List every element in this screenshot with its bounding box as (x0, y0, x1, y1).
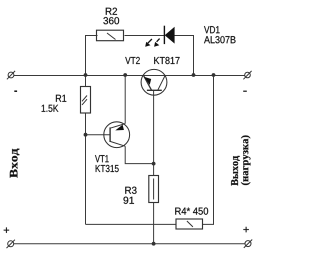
label R3 (125, 187, 136, 194)
terminal input bottom-left (7, 240, 15, 248)
junction node VT1 base on R1 line (84, 133, 88, 137)
junction node R3 on bottom rail (152, 242, 156, 246)
label R1 value 1.5K (42, 105, 59, 112)
LED VD1 (164, 26, 174, 44)
terminal input top-left (7, 71, 15, 79)
wire VT1 emitter to VT2 base node (125, 146, 153, 163)
label R1 (56, 95, 66, 102)
wire top rail (14, 75, 245, 77)
transistor VT1 emitter arrow (115, 125, 124, 131)
label R4 value R4* 450 (175, 207, 208, 214)
LED VD1 emission arrow 1 (145, 39, 152, 47)
junction node LED branch on output rail (192, 73, 196, 77)
wire R1 top lead (85, 75, 87, 87)
wire bottom run to R4 (86, 223, 177, 225)
junction node VT1 collector on input rail (123, 73, 127, 77)
wire VT1 collector riser (124, 75, 126, 124)
polarity minus top-right (243, 90, 247, 92)
label input Vhod (10, 149, 20, 178)
resistor R2 (97, 30, 124, 41)
wire R4 to output rail riser (203, 75, 214, 224)
wire R2 to VD1 (125, 35, 165, 37)
wire R1 bottom lead down to bottom run (85, 113, 87, 224)
resistor R3 (149, 176, 159, 203)
junction node R4 branch on output rail (212, 73, 216, 77)
wire bottom rail (14, 243, 245, 245)
terminal output bottom-right (244, 240, 252, 248)
junction node VT1 emitter / VT2 base (152, 162, 156, 166)
label output Vyhod (231, 156, 240, 186)
label R3 value 91 (123, 197, 134, 204)
wire VT2 base lead down to R3 (153, 90, 155, 175)
polarity plus bottom-left (4, 227, 9, 232)
resistor R4 (176, 219, 203, 229)
label R2 value 360 (103, 17, 119, 24)
label VT2 type KT817 (154, 57, 179, 64)
polarity plus bottom-right (243, 227, 248, 232)
label VT1 type KT315 (96, 165, 119, 172)
label output nagruzka (241, 135, 251, 185)
label VT2 (125, 57, 140, 64)
resistor R1 (81, 87, 91, 114)
label VD1 (204, 26, 220, 33)
wire VD1 to output rail (175, 36, 194, 76)
label VD1 type AL307B (204, 36, 236, 43)
junction node R2/R1 tap on input rail (84, 73, 88, 77)
wire R2 branch left (node to R2) (86, 36, 98, 76)
transistor VT1 (104, 122, 130, 148)
polarity minus top-left (14, 90, 17, 92)
transistor VT2 (141, 69, 167, 95)
label R2 (106, 8, 117, 15)
LED VD1 emission arrow 2 (154, 39, 160, 47)
wire VT1 base lead (86, 134, 111, 136)
label VT1 (95, 155, 109, 162)
transistor VT2 emitter arrow (144, 77, 151, 85)
wire R3 bottom lead (153, 203, 155, 244)
terminal output top-right (243, 71, 251, 79)
